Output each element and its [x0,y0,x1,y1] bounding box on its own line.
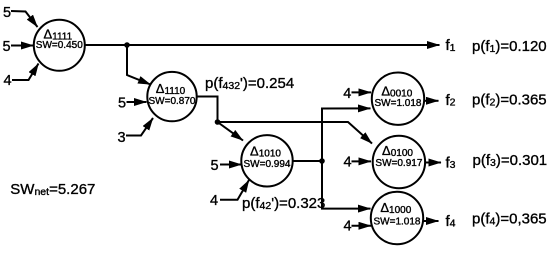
node U4 circle D0010 [372,73,424,125]
svg-text:4: 4 [343,219,351,235]
svg-text:p(f432')=0.254: p(f432')=0.254 [205,75,294,92]
wire branch from junction A down to node D1110 [127,45,151,85]
svg-text:p(f1)=0.120: p(f1)=0.120 [472,38,547,55]
svg-text:SW=0.870: SW=0.870 [149,96,196,107]
node A junction dot on f1 line [124,42,130,48]
svg-text:SWnet=5.267: SWnet=5.267 [10,181,95,198]
svg-text:4: 4 [210,193,218,209]
svg-text:p(f3)=0.301: p(f3)=0.301 [473,152,548,169]
node U2 circle D1110 [147,72,196,121]
svg-text:SW=0.994: SW=0.994 [244,159,291,170]
wire input 4 bottom into node D1111 [12,64,39,81]
node U3 circle D1010 [241,135,292,186]
svg-text:SW=0.450: SW=0.450 [36,40,83,51]
svg-text:4: 4 [343,154,351,170]
wire input 3 into node D1110 [126,118,153,136]
wire vertical bus branch down to node D1000 [322,161,371,209]
svg-text:p(f42')=0.323: p(f42')=0.323 [242,195,325,212]
node C junction dot [319,158,325,164]
svg-text:SW=0.917: SW=0.917 [375,158,422,169]
wire input 4 into node D1000 [352,225,372,227]
wire vertical bus branch up to node D0010 [322,108,371,161]
wire input 4 into node D0010 [352,91,372,93]
svg-text:3: 3 [117,130,125,146]
node B junction dot [215,119,221,125]
wire input 5 top into node D1111 [11,11,38,27]
wire input 5 middle into node D1111 [11,45,34,47]
wire input 5 into node D1010 [220,164,242,166]
svg-text:SW=1.018: SW=1.018 [374,217,421,228]
wire input 4 into node D0100 [352,160,372,162]
wire input 5 into node D1110 [127,101,147,103]
svg-text:SW=1.018: SW=1.018 [375,98,422,109]
wire branch from junction B across to node D0100 [218,122,373,144]
svg-text:5: 5 [2,39,10,55]
svg-text:4: 4 [343,86,351,102]
wire output f3 [425,162,441,164]
wire output of node D1010 to vertical bus [292,160,322,162]
wire output f4 [424,220,439,222]
wire output of node D1110 down to junction B [198,97,218,123]
node U5 circle D0100 [373,136,425,188]
svg-text:5: 5 [118,95,126,111]
node U6 circle D1000 [371,192,423,244]
node U1 circle D1111 [34,20,85,71]
wire output f2 [424,100,439,102]
svg-text:5: 5 [210,158,218,174]
svg-text:5: 5 [3,5,11,21]
wire branch from junction B to node D1010 [218,122,244,141]
wire f1 output line from node D1111 to f1 [86,44,440,46]
wire input 4 into node D1010 [220,180,249,200]
svg-text:p(f2)=0.365: p(f2)=0.365 [472,92,547,109]
svg-text:4: 4 [3,73,11,89]
svg-text:p(f4)=0,365: p(f4)=0,365 [472,211,547,228]
